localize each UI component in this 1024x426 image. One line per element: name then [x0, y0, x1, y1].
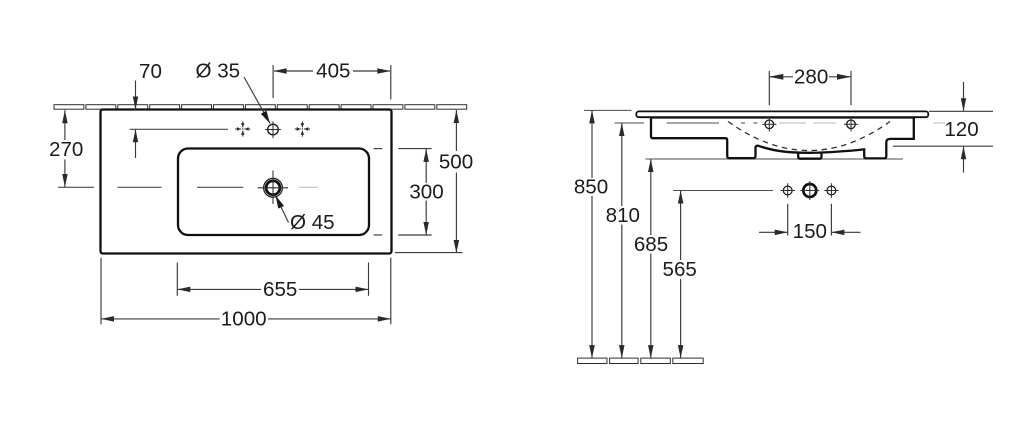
svg-text:565: 565 [663, 258, 697, 281]
svg-text:810: 810 [606, 204, 640, 227]
svg-text:850: 850 [574, 176, 608, 199]
svg-text:405: 405 [316, 60, 350, 83]
svg-text:280: 280 [794, 65, 828, 88]
svg-text:300: 300 [409, 180, 443, 203]
svg-text:655: 655 [263, 278, 297, 301]
svg-text:150: 150 [793, 220, 827, 243]
svg-text:270: 270 [49, 138, 83, 161]
svg-text:1000: 1000 [221, 308, 267, 331]
svg-text:70: 70 [139, 60, 162, 83]
svg-text:120: 120 [944, 118, 978, 141]
svg-text:Ø 35: Ø 35 [195, 60, 240, 83]
svg-text:Ø 45: Ø 45 [290, 211, 335, 234]
svg-text:500: 500 [439, 150, 473, 173]
svg-text:685: 685 [634, 233, 668, 256]
